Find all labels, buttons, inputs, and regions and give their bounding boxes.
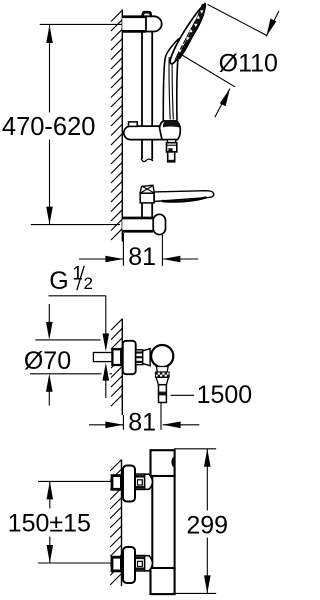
head inner rim line	[175, 8, 203, 60]
body division lines	[151, 475, 175, 477]
wall (middle figure)	[121, 319, 123, 415]
bottom wall bracket pipe	[122, 218, 153, 231]
svg-text:Ø70: Ø70	[24, 347, 71, 375]
dimension 81 (middle) line with arrows	[89, 424, 123, 426]
dimension 299 extension line top	[174, 448, 216, 450]
top wall bracket pipe	[122, 17, 146, 32]
lower union escutcheon	[123, 547, 135, 583]
wall hatching (middle figure)	[111, 319, 122, 406]
handle inner line A	[169, 57, 170, 120]
svg-text:Ø110: Ø110	[219, 49, 278, 77]
hand shower head (leaf)	[170, 4, 205, 64]
upper union escutcheon	[123, 466, 135, 502]
dimension 470-620 line lower segment with down arrow	[49, 140, 51, 225]
top bracket end cap	[146, 16, 162, 31]
svg-text:81: 81	[128, 408, 156, 436]
dark detail crescent on body right edge	[172, 458, 173, 467]
dimension 81 (middle) extension left	[122, 415, 124, 430]
hose nut knurl (checkered)	[155, 372, 169, 377]
soap dish clamp body	[140, 193, 154, 203]
dimension Ø70 extension line bottom	[30, 373, 102, 375]
rail tube (lower section)	[141, 203, 143, 217]
dimension Ø110 upper arrow	[266, 11, 279, 36]
svg-text:299: 299	[186, 512, 228, 540]
outlet neck	[156, 367, 168, 373]
upper union dome	[145, 474, 153, 489]
dimension Ø110 extension line lower	[182, 55, 235, 87]
glider clamp tab	[129, 122, 138, 127]
dimension 299 line with arrows	[206, 449, 208, 511]
leader to 1500	[171, 394, 195, 396]
lower union dome	[145, 556, 153, 571]
soap dish blade	[154, 191, 214, 202]
dimension Ø70 extension line top	[35, 339, 100, 341]
valve body circle	[151, 345, 173, 367]
dimension Ø70 lower arrow (up)	[48, 390, 50, 406]
dimension Ø110 extension line upper	[208, 4, 267, 35]
wall hatching (top figure)	[111, 10, 122, 240]
dimension 150±15 extension line bottom	[38, 562, 112, 564]
head outline redraw	[170, 4, 205, 64]
svg-text:470-620: 470-620	[2, 113, 96, 141]
wall (bottom figure)	[121, 459, 123, 586]
thermostat body top cap	[151, 450, 175, 476]
lower G1/2 thread square	[112, 557, 121, 571]
dimension Ø70 upper arrow (down)	[48, 304, 50, 323]
svg-text:G: G	[49, 267, 68, 295]
hose fitting	[159, 385, 167, 403]
svg-text:81: 81	[128, 243, 156, 271]
top bracket knob	[141, 11, 152, 16]
dimension Ø110 lower arrow	[215, 89, 230, 118]
dimension 299 extension line bottom	[172, 592, 216, 594]
dimension 150±15 line with arrows	[49, 481, 51, 508]
valve cone	[143, 349, 150, 366]
upper union nut	[135, 474, 145, 490]
thermostat body middle	[152, 476, 174, 568]
lower union nut	[135, 556, 145, 572]
thread lower arrow (up)	[105, 380, 107, 398]
wall (top figure)	[121, 10, 123, 242]
bottom bracket end cap	[153, 214, 165, 234]
hose cone	[156, 377, 169, 384]
dimension 470-620 extension line top	[40, 23, 123, 25]
G1/2 thread square	[112, 349, 121, 365]
glider body on rail	[124, 126, 178, 140]
valve nut	[136, 350, 143, 365]
upper G1/2 thread square	[112, 476, 121, 490]
wall hatching (bottom figure)	[110, 460, 121, 585]
hose line / extension	[160, 403, 162, 430]
hose connector below glider	[167, 140, 176, 143]
handle inner line B	[172, 55, 173, 120]
supply nipple pipe	[93, 353, 112, 362]
svg-text:1500: 1500	[197, 381, 253, 409]
svg-text:2: 2	[84, 274, 93, 293]
valve escutcheon	[123, 341, 136, 374]
soap dish clamp head	[140, 185, 154, 193]
rail break (open end)	[141, 159, 153, 162]
shower face dark spray band	[178, 5, 204, 59]
svg-text:150±15: 150±15	[8, 509, 91, 537]
spray band white nozzles	[178, 10, 203, 53]
thermostat body bottom cap	[151, 568, 175, 594]
hand shower handle	[163, 39, 180, 121]
rail tube (upper section)	[141, 32, 143, 159]
G 1/2 leader vertical with down arrow to thread	[105, 296, 107, 338]
dimension 81 (top figure) extension lines	[122, 233, 124, 266]
dimension 470-620 line upper segment with up arrow	[49, 25, 51, 113]
grip ring (dark) on cone	[163, 121, 180, 127]
glider cone (handle holder)	[160, 121, 181, 140]
dimension 150±15 extension line top	[38, 480, 112, 482]
dimension 81 (top figure) line with arrows	[79, 258, 123, 260]
G 1/2 leader underline	[49, 295, 107, 297]
dimension 470-620 extension line bottom	[31, 224, 120, 226]
